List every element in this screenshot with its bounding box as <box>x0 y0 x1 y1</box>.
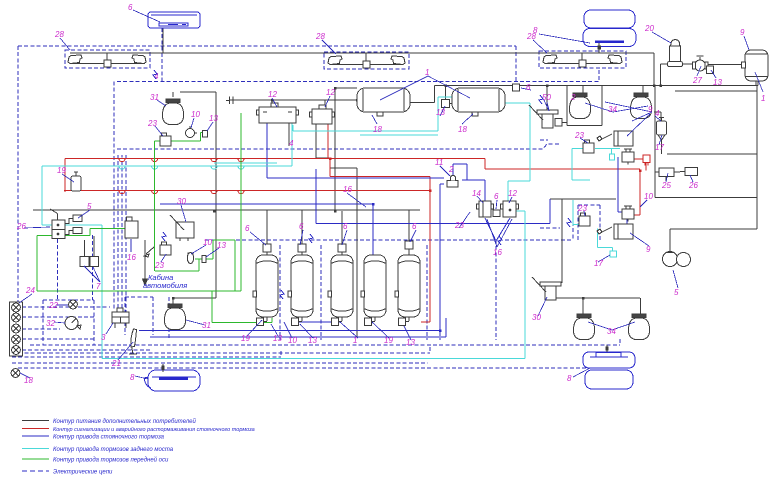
wire: sensor links <box>666 172 685 182</box>
svg-text:автомобиля: автомобиля <box>143 281 187 290</box>
valve 14 lower right <box>622 206 634 222</box>
valve 6 on R2 <box>298 244 306 252</box>
svg-text:6: 6 <box>526 83 531 92</box>
wire: cyan double y130/135 <box>293 97 452 135</box>
wire: dashed mid horizontal y148 <box>117 144 560 149</box>
wheel shoes box A <box>68 55 82 64</box>
svg-text:32: 32 <box>46 319 55 328</box>
svg-text:8: 8 <box>533 26 538 35</box>
svg-text:13: 13 <box>406 338 415 347</box>
wire: axle drops to wheel boxes <box>107 53 582 61</box>
svg-text:5: 5 <box>674 288 679 297</box>
gauge 32 <box>65 317 81 330</box>
second manifold line right <box>675 90 757 92</box>
wire: dashed verticals around cylinders <box>169 240 496 340</box>
wire: comp50 connection <box>546 86 548 111</box>
wire: red bus A y158 <box>65 159 640 193</box>
pressure sensor 26 <box>685 168 698 176</box>
wire: outer dashed top border <box>18 45 516 47</box>
reservoir pot 31 top-left <box>162 99 183 125</box>
svg-text:19: 19 <box>384 336 393 345</box>
wire: center long vertical <box>335 88 357 210</box>
cyan fitting 17 <box>610 251 617 257</box>
wire: valve12B dark leg and x357 drop <box>316 124 357 337</box>
park brake valve 26 <box>50 209 65 239</box>
svg-text:28: 28 <box>315 32 325 41</box>
lamp 2 <box>12 313 21 322</box>
wire: valve12 legs <box>267 123 289 146</box>
brake pedal valve 3 <box>112 308 129 328</box>
brake drum 34 bottom-B <box>628 314 649 340</box>
component number labels <box>16 3 765 385</box>
horizontal tank T1 <box>357 88 410 116</box>
svg-text:22: 22 <box>48 301 58 310</box>
svg-text:26: 26 <box>688 181 698 190</box>
wire: red bus B y190 <box>64 190 430 192</box>
wire: navy bottom bus2 <box>150 318 446 337</box>
svg-text:12: 12 <box>508 189 517 198</box>
svg-text:9: 9 <box>740 28 745 37</box>
svg-text:5: 5 <box>87 202 92 211</box>
small valve 6 on pipe <box>513 84 520 91</box>
svg-text:34: 34 <box>607 327 616 336</box>
wire: navy diagonals to node16 <box>485 218 510 241</box>
brake chamber 9 lower right <box>597 224 633 239</box>
wire: cyan long vertical <box>516 211 525 359</box>
cyan fitting upper <box>610 154 615 160</box>
svg-text:18: 18 <box>24 376 33 385</box>
valve 6 on R1 <box>263 244 271 252</box>
wheel box C <box>539 51 626 68</box>
hop bumps on buses <box>119 157 244 194</box>
svg-text:8: 8 <box>130 373 135 382</box>
hand valves 5 <box>65 215 82 235</box>
svg-text:23: 23 <box>574 131 584 140</box>
wire: dashed from cab device down <box>161 28 163 82</box>
valve 14 group C <box>477 201 494 217</box>
svg-text:10: 10 <box>203 238 212 247</box>
wire: navy U over comp11 <box>453 164 467 180</box>
valve 6 on R3 <box>338 244 346 252</box>
svg-text:19: 19 <box>57 166 66 175</box>
wire: pots top-right frame <box>562 86 661 173</box>
wheel shoes box C <box>543 55 557 64</box>
wire: navy bottom bus1 <box>139 330 440 332</box>
svg-text:25: 25 <box>661 181 671 190</box>
wire: green left branch <box>37 229 125 292</box>
small valve 6 group C <box>493 210 500 217</box>
lamp 4 <box>12 335 21 344</box>
svg-text:20: 20 <box>644 24 654 33</box>
valve 27 <box>693 56 708 71</box>
wire: dashed bus y240 <box>205 239 573 241</box>
svg-text:23: 23 <box>454 221 464 230</box>
svg-text:21: 21 <box>111 359 121 368</box>
svg-text:10: 10 <box>644 192 653 201</box>
svg-text:2: 2 <box>448 165 454 174</box>
wire: dashed harness bundle <box>114 82 126 313</box>
wire: cyan lower-right loop <box>573 200 612 252</box>
svg-text:Контур привода тормозов заднег: Контур привода тормозов заднего моста <box>53 447 174 453</box>
svg-text:7: 7 <box>96 282 101 291</box>
wire: green main vertical <box>240 113 242 291</box>
wire: tank manifold <box>173 86 654 106</box>
fitting 13 <box>203 131 208 138</box>
coupling fitting 25 <box>226 97 233 105</box>
air receiver R1 <box>253 255 278 326</box>
svg-text:9: 9 <box>648 105 653 114</box>
svg-text:13: 13 <box>308 336 317 345</box>
air receiver R5 (19) <box>395 255 420 326</box>
lamp 1 <box>12 303 21 312</box>
valve 13 top-right <box>707 66 714 74</box>
cab device 6 <box>148 12 200 28</box>
svg-text:Контур питания дополнительных: Контур питания дополнительных потребител… <box>53 418 197 425</box>
wire: dashed lamp wires <box>22 307 150 350</box>
dash lamp block 24 <box>10 302 23 356</box>
svg-text:18: 18 <box>458 125 467 134</box>
wire: outer dashed left border <box>17 46 19 340</box>
valve 23 under pot31 <box>160 133 171 146</box>
svg-text:31: 31 <box>202 321 211 330</box>
svg-text:13: 13 <box>713 78 722 87</box>
svg-text:13: 13 <box>436 108 445 117</box>
svg-text:23: 23 <box>577 204 587 213</box>
svg-text:Электрические цепи: Электрические цепи <box>53 470 113 476</box>
wire: dashed box2 top <box>117 46 599 82</box>
wire: navy comp11 to valve14C <box>462 180 485 201</box>
brake valve block 12 B <box>310 105 335 124</box>
wire: cyan second bus <box>214 162 277 164</box>
svg-text:19: 19 <box>241 334 250 343</box>
wire: red right drop to valves <box>632 159 646 215</box>
legend captions <box>53 418 255 476</box>
svg-text:10: 10 <box>288 336 297 345</box>
valve 16 <box>125 217 138 238</box>
wheel shoes box B <box>328 56 342 65</box>
valve 23 upper right <box>583 140 594 153</box>
wire: green component loop <box>155 132 235 291</box>
wire: navy y223 bus to right <box>316 157 627 224</box>
air bellows top (8) <box>583 10 636 47</box>
label pointer lines <box>19 10 763 379</box>
valve 12 group C <box>501 201 519 217</box>
air receiver R2 <box>288 255 313 326</box>
svg-text:30: 30 <box>532 313 541 322</box>
pressure gauge 22 <box>69 300 78 309</box>
svg-text:1: 1 <box>425 68 429 77</box>
receiver tank 1 (right) <box>745 50 768 81</box>
svg-text:11: 11 <box>435 158 443 167</box>
component 19 on red line <box>71 172 81 191</box>
wire: cylinder tops to manifold <box>267 210 409 255</box>
svg-text:16: 16 <box>493 248 502 257</box>
svg-text:17: 17 <box>655 143 664 152</box>
wire: comp19 stem <box>75 190 77 191</box>
svg-text:23: 23 <box>147 119 157 128</box>
svg-text:14: 14 <box>472 189 481 198</box>
svg-text:31: 31 <box>150 93 159 102</box>
svg-text:9: 9 <box>646 245 651 254</box>
svg-text:Контур привода стояночного тор: Контур привода стояночного тормоза <box>53 435 165 441</box>
svg-text:6: 6 <box>128 3 133 12</box>
svg-text:10: 10 <box>191 110 200 119</box>
svg-text:34: 34 <box>608 105 617 114</box>
wire: dashed box around pedal unit <box>125 297 153 335</box>
pressure limit squares 7 <box>80 257 89 267</box>
svg-text:4: 4 <box>655 109 660 118</box>
svg-text:13: 13 <box>217 241 226 250</box>
svg-text:6: 6 <box>299 222 304 231</box>
svg-text:24: 24 <box>25 286 35 295</box>
air bellows 8 bottom left <box>144 370 200 391</box>
air receiver R4 <box>361 255 386 326</box>
valve 14 upper right <box>622 149 634 165</box>
svg-text:8: 8 <box>567 374 572 383</box>
wheel box A <box>65 50 150 68</box>
svg-text:1: 1 <box>761 94 765 103</box>
pressure sensor 25 <box>659 168 674 177</box>
svg-text:6: 6 <box>412 222 417 231</box>
disc 10 center <box>187 253 193 264</box>
wire: navy bus y204 <box>160 204 373 255</box>
horizontal tank T2 <box>452 88 505 116</box>
valve 13 small near T2 <box>442 100 450 108</box>
horns 5 <box>663 252 678 267</box>
dryer bracket 50 <box>529 105 558 128</box>
svg-text:26: 26 <box>16 222 26 231</box>
wire: dashed right fragments <box>540 140 600 240</box>
wire: top right manifold <box>645 53 758 86</box>
wire: green to cyl1 <box>212 291 272 323</box>
wire: cyan left drop <box>42 166 102 359</box>
svg-text:16: 16 <box>127 253 136 262</box>
svg-text:17: 17 <box>594 259 603 268</box>
wire: right long vertical <box>550 86 757 253</box>
wire: cab device stem <box>162 28 164 53</box>
svg-text:30: 30 <box>177 197 186 206</box>
valve 23 lower right <box>579 213 590 226</box>
switch bracket 30 right <box>532 277 561 300</box>
compressor 20 <box>667 40 682 67</box>
red fitting 13 upper right <box>643 155 650 166</box>
svg-text:12: 12 <box>268 90 277 99</box>
reservoir pot 31 bottom-left <box>164 304 185 330</box>
wire: cyan bus y166 <box>42 123 292 166</box>
wire: dashed bottom bus lines <box>12 339 620 368</box>
svg-text:13: 13 <box>209 114 218 123</box>
svg-text:6: 6 <box>343 222 348 231</box>
wire: cyan upper-right loop <box>572 149 620 181</box>
brake valve block 12 A <box>257 103 299 123</box>
wire: left area pipes <box>33 92 420 306</box>
svg-text:3: 3 <box>101 333 106 342</box>
svg-text:16: 16 <box>343 185 352 194</box>
brake drum 34 bottom-A <box>573 314 594 340</box>
svg-text:1: 1 <box>353 336 357 345</box>
svg-text:Контур привода тормозов передн: Контур привода тормозов передней оси <box>53 457 169 464</box>
relay valve 11 <box>447 176 458 188</box>
svg-text:6: 6 <box>245 224 250 233</box>
switch 30 left <box>170 215 194 241</box>
wire: cyan tank2 right drop <box>504 103 530 201</box>
wire: navy cyl2-cyl3 link <box>297 318 340 322</box>
lever fitting center <box>144 247 154 257</box>
wire: cyan bottom bus <box>102 358 525 360</box>
regulator disc 10 <box>186 129 195 138</box>
svg-text:13: 13 <box>273 334 282 343</box>
lamp 5 <box>12 346 21 355</box>
wire: comp30 to wheels <box>554 199 641 315</box>
valve 23 center <box>160 242 171 255</box>
brake drum 34 right-B <box>630 93 651 119</box>
receiver 4 right <box>657 118 667 144</box>
wire: navy bus y178 <box>267 123 444 178</box>
lamp 3 <box>12 324 21 333</box>
wire: green bus y291 <box>37 290 241 292</box>
svg-text:Контур сигнализации и аварийно: Контур сигнализации и аварийного расторм… <box>53 426 255 433</box>
svg-text:50: 50 <box>542 93 551 102</box>
svg-text:6: 6 <box>494 192 499 201</box>
brake pedal 21 <box>129 329 137 354</box>
wire: right vertical from axle <box>653 53 655 86</box>
svg-text:27: 27 <box>692 76 702 85</box>
wire: valve12B right leg red <box>327 124 329 159</box>
svg-text:18: 18 <box>373 125 382 134</box>
air bellows 8 bottom right <box>583 352 635 389</box>
wire: main axle line <box>70 52 654 54</box>
cab text arrow <box>143 240 148 285</box>
wheel box B <box>324 52 409 69</box>
wire: navy left drop from comp11 <box>440 184 444 331</box>
svg-text:23: 23 <box>154 261 164 270</box>
svg-text:28: 28 <box>54 30 64 39</box>
valve 6 on R5 <box>405 241 413 249</box>
brake chamber 9 upper right <box>597 131 633 146</box>
wire: red jog to y176 <box>330 159 430 323</box>
lightning marks on electric wires <box>153 70 571 456</box>
svg-text:4: 4 <box>289 139 294 148</box>
fitting 13 center <box>202 256 206 263</box>
lamp 18 <box>11 369 20 378</box>
legend color samples <box>22 421 49 472</box>
air receiver R3 <box>328 255 353 326</box>
svg-text:12: 12 <box>326 88 335 97</box>
wire: dashed box around gauges <box>43 235 94 345</box>
brake drum 34 right-A <box>569 93 590 119</box>
svg-text:2: 2 <box>570 93 576 102</box>
